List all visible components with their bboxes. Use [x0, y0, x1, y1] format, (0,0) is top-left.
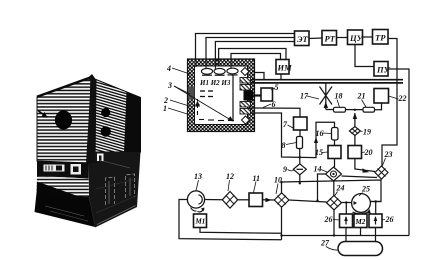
label 6	[263, 100, 276, 109]
label 2	[163, 96, 189, 106]
tank stubs	[346, 228, 376, 242]
valve 10	[274, 193, 289, 207]
wire 14 to 24	[333, 181, 335, 196]
wire ЦУ-ТР	[363, 36, 373, 38]
svg-text:18: 18	[335, 92, 343, 101]
airflow dashed loop bottom	[196, 99, 235, 121]
shaft double line	[251, 80, 403, 83]
heater 26 right	[369, 214, 382, 228]
block 11	[249, 193, 263, 207]
svg-text:5: 5	[275, 83, 279, 92]
heater 26 left	[340, 214, 353, 228]
lamp Л1	[201, 68, 212, 75]
svg-text:1: 1	[163, 104, 167, 113]
valve 23	[375, 166, 388, 179]
pump 13	[187, 191, 204, 208]
wire 9 bottom stub	[299, 175, 301, 185]
label 24	[335, 184, 345, 197]
regulator 14	[326, 167, 342, 181]
block ЦУ	[348, 30, 364, 45]
svg-text:19: 19	[363, 128, 371, 137]
label 17	[300, 92, 319, 101]
block ПУ	[374, 62, 391, 77]
label 16	[316, 129, 332, 138]
resistor 21	[363, 107, 375, 112]
wire 15 to 14	[334, 159, 336, 168]
svg-text:26: 26	[385, 215, 394, 224]
tank 27	[338, 242, 383, 256]
wire 10 top to 23 bottom line	[280, 180, 381, 202]
wire ЭТ-РТ	[309, 37, 322, 40]
chamber insulated wall	[188, 59, 255, 132]
damper rod inside chamber	[232, 76, 234, 122]
label 21	[357, 92, 367, 108]
main return bus	[282, 235, 410, 237]
machine base	[35, 193, 96, 227]
coupling 13-М1	[191, 208, 205, 212]
svg-text:ЦУ: ЦУ	[349, 33, 364, 43]
block ИМ	[276, 60, 292, 81]
label 8	[282, 141, 297, 150]
wire 8 to 9 with tee	[299, 149, 301, 165]
svg-text:М2: М2	[355, 218, 366, 226]
block ТР	[373, 30, 389, 45]
svg-text:14: 14	[314, 165, 322, 174]
label 11	[253, 174, 261, 193]
wire chamber step to shaft	[255, 73, 264, 80]
wire 24 down to bus	[333, 210, 335, 237]
wire РТ-ЦУ	[337, 37, 348, 39]
machine cabinet front face	[37, 74, 97, 163]
svg-text:27: 27	[320, 239, 330, 248]
label 13	[194, 172, 202, 191]
lamp Л2	[214, 68, 225, 75]
label 22	[389, 94, 407, 103]
label 18	[335, 92, 343, 108]
pump 25	[352, 194, 371, 214]
wall heater stack diamond top	[241, 68, 249, 76]
lamp Л3	[227, 68, 238, 75]
machine lower louvers	[37, 176, 90, 197]
block 20	[348, 146, 362, 159]
label 14	[314, 165, 328, 174]
label 25	[359, 185, 370, 197]
wire М1 return	[200, 228, 282, 234]
resistor 8	[297, 137, 303, 149]
label 1	[163, 104, 189, 115]
svg-text:ЭТ: ЭТ	[297, 34, 309, 44]
wire lamp1 to ЭТ	[196, 34, 295, 61]
leader diagonal label 3	[174, 86, 234, 122]
wire 17 to 22 with resistors	[326, 103, 382, 111]
valve 17	[320, 83, 333, 110]
svg-text:12: 12	[226, 172, 234, 181]
wire ПУ to right bus	[388, 69, 409, 236]
wire 13 to 12	[205, 199, 223, 201]
svg-text:10: 10	[274, 176, 282, 185]
left wall window element	[188, 87, 195, 100]
machine porthole window	[55, 110, 72, 129]
svg-text:13: 13	[194, 172, 202, 181]
label 26 right	[382, 215, 394, 224]
svg-text:ТР: ТР	[375, 33, 386, 43]
svg-text:21: 21	[357, 92, 366, 101]
wire pump loop return	[179, 200, 282, 240]
label 12	[226, 172, 234, 191]
block 22	[374, 89, 389, 104]
wire ТР down to diamond 23	[382, 39, 397, 167]
machine right side upper face	[89, 78, 141, 164]
machine side portholes	[101, 108, 111, 137]
svg-text:7: 7	[283, 120, 288, 129]
svg-text:ИМ: ИМ	[277, 63, 293, 73]
wire 25 right side	[370, 200, 381, 202]
label 4	[166, 64, 190, 74]
label 9	[283, 165, 294, 174]
wire 14 to 23	[342, 176, 378, 178]
wire 24 to 25	[342, 201, 352, 203]
wire 10 to 24	[289, 200, 327, 203]
block 5	[261, 88, 273, 101]
wire damper rod to ИМ b	[231, 54, 281, 61]
wire 20 to 23 arrow	[355, 159, 375, 173]
wire 19 to 20	[354, 136, 356, 146]
sensor block 4 black square	[244, 91, 262, 101]
label 7	[283, 120, 294, 129]
label 20	[362, 148, 373, 157]
label 19	[361, 128, 372, 137]
svg-text:6: 6	[272, 100, 276, 109]
wire 16 to 15	[334, 140, 336, 146]
svg-text:26: 26	[324, 215, 333, 224]
airflow dashed arrows	[200, 91, 213, 97]
label 26 left	[324, 215, 341, 224]
svg-text:23: 23	[384, 150, 393, 159]
svg-text:20: 20	[364, 148, 373, 157]
svg-text:25: 25	[361, 185, 370, 194]
wall heater elements	[240, 78, 251, 115]
machine arrow marker at porthole	[39, 111, 48, 118]
wire 11 to 10 arrow	[263, 198, 275, 202]
wire 10 down	[280, 207, 282, 240]
svg-text:2: 2	[163, 96, 168, 105]
svg-text:И1 И2 И3: И1 И2 И3	[199, 79, 231, 87]
svg-text:9: 9	[283, 165, 287, 174]
resistor 18	[334, 107, 346, 112]
svg-text:РТ: РТ	[325, 34, 336, 44]
svg-text:22: 22	[398, 94, 407, 103]
motor М2	[354, 214, 367, 228]
machine control panel	[37, 161, 89, 179]
svg-text:8: 8	[282, 141, 286, 150]
wire lamp2 to ЭТ	[206, 38, 295, 61]
machine lower right face	[89, 152, 141, 228]
label 5	[271, 83, 279, 92]
lamp designators И1 И2 И3	[199, 79, 231, 87]
block 15	[328, 146, 341, 159]
wire lamp3 to ЭТ	[215, 42, 294, 61]
label 15	[315, 148, 328, 157]
machine white pi mark	[97, 154, 104, 162]
wire to heater 26 left	[345, 203, 347, 215]
block ЭТ	[295, 31, 310, 46]
wire 14 left drop to line 10-24	[318, 174, 326, 201]
resistor 16	[332, 128, 339, 141]
lamp wire stubs over wall	[196, 59, 231, 70]
label 3	[167, 81, 190, 94]
label 27	[320, 239, 338, 251]
wire 12 to 11	[238, 199, 249, 201]
label 23	[383, 150, 393, 166]
valve 19	[349, 127, 360, 136]
svg-text:4: 4	[166, 64, 171, 73]
block РТ	[322, 31, 337, 46]
machine front-right edge band	[86, 78, 97, 165]
label 10	[274, 176, 282, 195]
svg-text:М1: М1	[195, 218, 206, 226]
throttle 9	[293, 164, 306, 175]
wire ЦУ to ПУ	[355, 45, 374, 67]
block 7	[294, 117, 308, 130]
wire 19 arrow up	[353, 113, 357, 127]
wire chamber line2 to 16	[251, 113, 335, 158]
motor М1	[194, 214, 207, 228]
wall stack diamond bottom	[242, 116, 250, 124]
svg-text:16: 16	[316, 129, 324, 138]
valve 24	[327, 196, 342, 210]
filter 12	[222, 192, 237, 209]
svg-text:3: 3	[167, 81, 172, 90]
svg-text:24: 24	[336, 184, 345, 193]
wire chamber to block 7	[251, 108, 300, 117]
wire to heater 26 right	[375, 202, 377, 215]
wire sensor to ИМ a	[219, 49, 286, 61]
wire 7 to 8	[299, 130, 301, 137]
